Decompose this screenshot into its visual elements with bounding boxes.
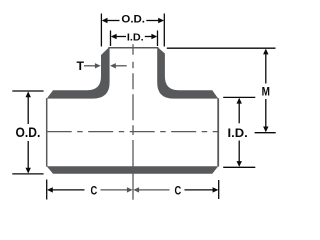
tee body: left-top wall piece xyxy=(47,48,110,99)
svg-text:I.D.: I.D. xyxy=(228,126,248,140)
svg-text:T: T xyxy=(76,59,84,73)
O.D. left dimension xyxy=(12,91,43,174)
svg-text:I.D.: I.D. xyxy=(127,32,144,43)
I.D. top left arrowhead xyxy=(111,34,117,39)
svg-text:M: M xyxy=(262,84,270,98)
svg-text:O.D.: O.D. xyxy=(16,125,41,140)
branch top bore face xyxy=(108,47,158,49)
svg-text:C: C xyxy=(175,183,182,197)
svg-text:C: C xyxy=(91,183,98,197)
M dimension xyxy=(167,47,276,49)
tee body: bottom wall piece xyxy=(47,166,219,174)
tee body: right-top wall piece xyxy=(157,48,218,99)
centre extension line (C dim) xyxy=(132,140,134,200)
left end bore face xyxy=(46,98,48,166)
C dimensions xyxy=(47,180,219,200)
vertical centerline xyxy=(132,44,134,135)
horizontal centerline xyxy=(47,131,219,133)
right end bore face xyxy=(217,98,219,166)
I.D. top right arrowhead xyxy=(151,34,157,39)
I.D. top dimension xyxy=(111,31,158,47)
O.D. top dimension xyxy=(101,14,164,47)
svg-text:O.D.: O.D. xyxy=(121,14,145,26)
I.D. right dimension xyxy=(223,97,255,167)
O.D. top left arrowhead xyxy=(102,18,108,23)
O.D. top right arrowhead xyxy=(158,18,164,23)
